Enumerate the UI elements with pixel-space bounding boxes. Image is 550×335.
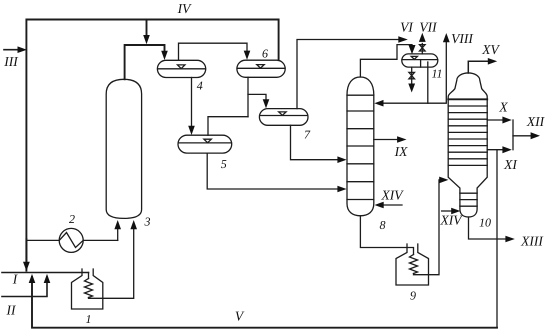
wire furnace 1 feed: [88, 273, 90, 279]
wire III down to I junction: [25, 239, 27, 262]
svg-text:VII: VII: [419, 20, 438, 35]
svg-text:XIV: XIV: [440, 213, 464, 228]
svg-text:5: 5: [221, 157, 227, 171]
svg-text:X: X: [498, 100, 508, 115]
svg-text:3: 3: [144, 215, 151, 229]
drum 4: [157, 60, 205, 77]
wire stream XI recycle down to V: [496, 150, 498, 328]
wire stream II line: [2, 277, 47, 297]
wire stream IX draw: [374, 139, 398, 141]
arrow IV joins overhead: [143, 35, 150, 44]
arrow stream XI: [502, 146, 511, 153]
wire furnace 9 outlet to column 10: [414, 180, 441, 275]
wire exchanger 2 line to column 3: [26, 239, 59, 241]
svg-text:IV: IV: [177, 1, 192, 16]
wire drum 4 liquid to drum 5: [191, 78, 193, 127]
svg-text:11: 11: [431, 67, 442, 81]
heat exchanger 2: [59, 228, 83, 252]
wire stream XIII bottoms: [469, 217, 507, 239]
svg-text:IX: IX: [394, 144, 408, 159]
arrow furnace 9 to column 10: [439, 177, 448, 184]
level mark drum 5: [204, 139, 211, 143]
wire drum 7 vapor to stream VI: [297, 40, 398, 109]
wire stream XV overhead: [468, 61, 489, 73]
svg-text:1: 1: [86, 312, 92, 326]
column 10 stripper trays: [460, 192, 477, 194]
level mark drum 4: [178, 65, 185, 69]
arrow stream III: [18, 46, 27, 53]
wire stream I line: [2, 272, 89, 274]
arrow III joins I: [23, 262, 30, 271]
arrow II joins I: [44, 274, 51, 283]
arrow stream XV: [488, 58, 497, 65]
svg-text:XII: XII: [526, 114, 546, 129]
wire drum 6 to drum 7 branch: [248, 94, 266, 100]
drum 6: [237, 60, 285, 77]
svg-text:II: II: [6, 303, 17, 318]
furnace 1 coil: [85, 279, 93, 298]
wire drum 11 reflux to column 8 and stream VIII riser: [383, 62, 428, 103]
wire drum 4 vapor to drum 6: [179, 43, 248, 60]
valve on drain line: [409, 72, 415, 78]
arrow stream VIII: [443, 33, 450, 42]
level mark drum 7: [279, 112, 286, 115]
wire stream XIV into column 10: [442, 210, 452, 212]
arrow stream X: [502, 117, 511, 124]
wire stream XI draw: [487, 149, 503, 151]
arrow reflux into column 8: [374, 100, 383, 107]
arrow V joins I: [29, 274, 36, 283]
svg-text:6: 6: [262, 47, 268, 61]
wire drum 6 bottom outlet: [247, 77, 249, 116]
arrow exchanger line into column 3: [114, 220, 121, 229]
arrow stream XIV into column 10: [451, 208, 460, 215]
wire stream III inlet: [4, 49, 19, 51]
wire stream V bottom return: [32, 277, 497, 328]
furnace 1: [72, 269, 103, 309]
svg-text:XI: XI: [503, 157, 518, 172]
wire column 3 overhead to drum 4: [125, 45, 165, 79]
arrow furnace 1 outlet into column 3: [130, 220, 137, 229]
svg-text:2: 2: [69, 212, 75, 226]
furnace 9 coil: [410, 255, 418, 274]
column 8 trays: [347, 94, 374, 96]
arrow stream IX: [397, 136, 406, 143]
drum 5: [178, 135, 232, 153]
wire column 8 bottoms to furnace 9: [360, 216, 413, 255]
level mark drum 11: [411, 56, 417, 59]
wire stream XIV into column 8: [383, 204, 402, 206]
column 3: [106, 79, 141, 218]
svg-text:VIII: VIII: [451, 31, 474, 46]
arrow feed 1 into column 8: [337, 156, 346, 163]
svg-text:VI: VI: [400, 20, 414, 35]
column 10 shell: [448, 73, 487, 99]
column 10 trays: [448, 105, 487, 107]
svg-text:4: 4: [197, 79, 203, 93]
wire furnace 1 outlet to column 3: [89, 229, 134, 298]
arrowheads: [18, 33, 541, 283]
wire IV branch down to overhead line: [146, 20, 148, 37]
svg-text:8: 8: [380, 218, 386, 232]
arrow drain below drum 11: [408, 84, 415, 93]
column 8: [347, 77, 374, 216]
level mark drum 6: [257, 65, 264, 69]
furnace 9: [396, 244, 429, 285]
wire stream VII vent with valve: [421, 44, 423, 54]
arrow into drum 4: [161, 51, 168, 60]
arrow stream XIII: [505, 236, 514, 243]
arrow feed 2 into column 8: [337, 186, 346, 193]
wire drum 11 water drain with valve: [411, 67, 413, 84]
wire stream XII outlet: [513, 135, 531, 137]
arrow stream VII: [419, 33, 426, 42]
arrow stream VI: [398, 36, 408, 43]
drum 11: [402, 54, 438, 67]
svg-text:XIV: XIV: [381, 188, 405, 203]
arrow into drum 11: [409, 45, 416, 54]
arrow into drum 6: [244, 51, 251, 60]
arrow stream XIV into column 8: [375, 202, 384, 209]
wire stream IV top header: [26, 20, 278, 271]
wire drum 6 to drum 5 branch: [208, 117, 248, 136]
arrow stream XII: [531, 132, 540, 139]
svg-text:7: 7: [304, 128, 311, 142]
svg-text:XV: XV: [481, 42, 500, 57]
wire drum 5 liquid to column 8: [207, 153, 338, 189]
wire column 8 overhead to drum 11: [360, 45, 412, 77]
drum 7: [259, 109, 308, 126]
arrow into drum 5: [188, 126, 195, 135]
column 10 top line: [448, 98, 487, 100]
valve on VII line: [420, 45, 426, 51]
svg-text:XIII: XIII: [520, 234, 544, 249]
wire X-XI bracket: [512, 120, 514, 150]
wire stream X draw: [487, 119, 503, 121]
wire drum 7 liquid to column 8: [291, 125, 339, 159]
svg-text:10: 10: [479, 216, 491, 230]
svg-text:9: 9: [410, 289, 416, 303]
svg-text:III: III: [3, 54, 19, 69]
arrow into drum 7: [263, 99, 270, 108]
